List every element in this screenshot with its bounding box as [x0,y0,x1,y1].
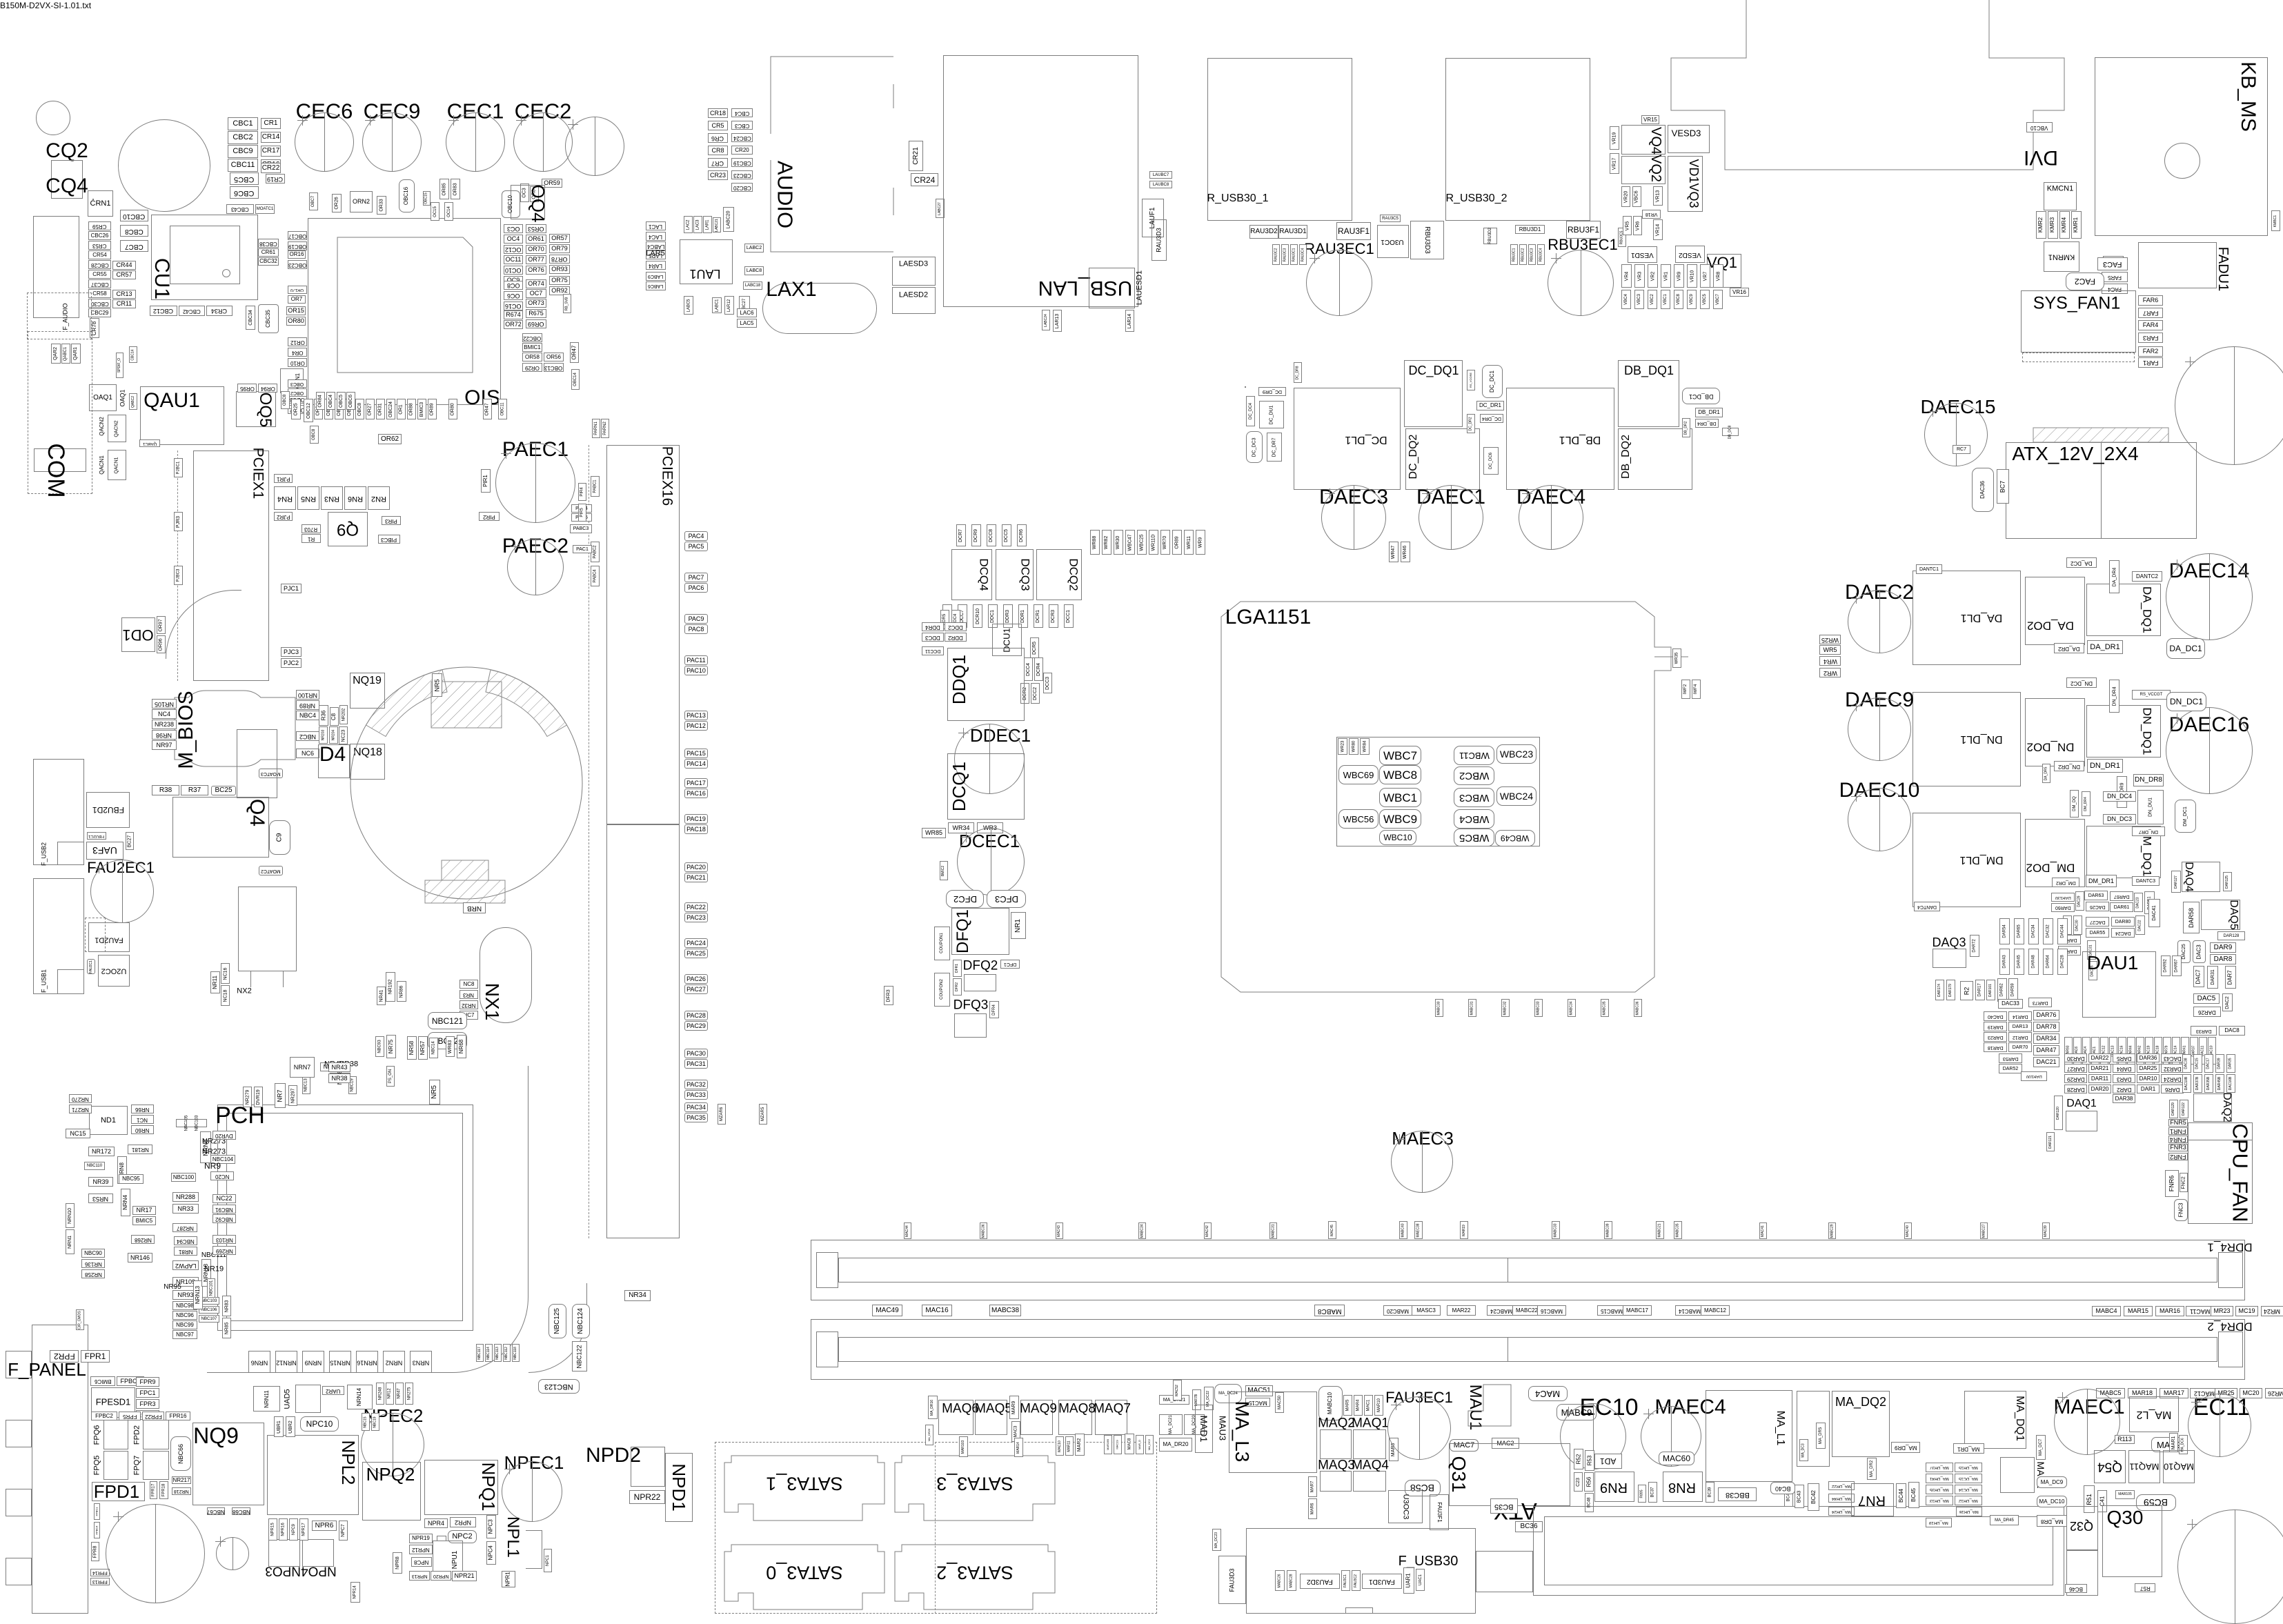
resistor NR38 [328,1073,350,1083]
resistor MA_DR16 [928,1396,938,1419]
resistor FPR22 [142,1412,164,1420]
capacitor MABC14 [1675,1305,1704,1316]
capacitor CBC11 [228,159,258,172]
capacitor WBC4 [1454,809,1494,829]
resistor DAR101 [1986,980,1995,1000]
resistor NR271 [69,1105,92,1113]
resistor DAR47 [2033,1045,2059,1056]
resistor DC_DR8 [1294,362,1302,383]
part BMIC3 [417,399,426,419]
capacitor NBC105 [176,1119,197,1127]
label NR9 [204,1162,221,1170]
resistor R38 [152,785,179,795]
resistor VR5 [1623,216,1632,235]
capacitor DAC31 [2087,940,2096,960]
resistor MAR14 [1014,1438,1023,1457]
resistor WR88 [1090,530,1100,555]
wire CPU_FAN pin row [2188,1140,2253,1140]
resistor KMR3 [2048,211,2058,239]
resistor OR16 [288,250,306,259]
resistor MAR16 [2155,1306,2184,1316]
connector connector R_USB30_1 [1207,58,1352,221]
capacitor PAC35 [684,1113,708,1122]
resistor WR11D [1149,530,1158,555]
capacitor CR23 [708,170,728,180]
resistor NR287 [172,1223,197,1232]
resistor VR14 [1653,219,1663,240]
resistor DCR5 [1030,637,1039,658]
transistor transistor MA_DQ2 [1832,1391,1890,1457]
capacitor CBC1 [228,117,258,130]
resistor network NRN8 [117,1156,127,1184]
resistor VR3 [1634,264,1645,288]
inductor NPL1 [504,1516,521,1558]
capacitor NC20 [210,1171,234,1180]
capacitor NBC66 [170,1436,191,1471]
diode DANTC3 [2132,876,2160,886]
resistor MAR6 [1308,1498,1317,1519]
capacitor MAC42 [1204,1222,1212,1239]
resistor NR93 [172,1290,199,1300]
resistor OR25 [291,399,301,419]
capacitor OBC3 [288,379,307,388]
IC IC DAU1 [2082,951,2156,1018]
part MAEC38 [1414,1221,1423,1239]
resistor NPR19 [409,1534,433,1543]
resistor DAR22 [2088,1053,2111,1062]
capacitor DDC3 [922,633,944,642]
resistor DAR92 [2161,955,2171,976]
crystal crystal NX2 cap [237,729,277,798]
resistor DAR17 [1975,980,1985,1000]
capacitor MAC51 [1245,1385,1273,1396]
resistor OR31 [376,399,385,419]
capacitor DAC1 [2091,1037,2099,1064]
resistor NR192 [386,972,395,1002]
capacitor DA_DC1 [2166,638,2205,659]
resistor DB_DR2 [1682,418,1690,437]
capacitor MA_DC3 [1799,1439,1808,1461]
capacitor RBU3C4 [1537,244,1545,265]
resistor NR269 [213,1246,236,1255]
resistor FNR5 [2168,1119,2188,1127]
resistor network RN9 [1594,1472,1634,1502]
resistor network NRN3 [410,1351,432,1373]
capacitor RAU3EC1 label [1304,241,1374,257]
resistor DA_DR1 [2087,640,2123,654]
capacitor CBC6 [230,186,259,199]
resistor WR34 [948,822,974,833]
capacitor MABC26 [1275,1570,1285,1591]
resistor NPR13 [409,1571,430,1581]
capacitor DDEC1 [954,724,1025,794]
capacitor OC10 [504,266,523,275]
capacitor FPC1 [136,1388,159,1398]
resistor OR7 [288,295,306,304]
part MOATC3 [259,769,283,778]
resistor NR53 [88,1194,113,1203]
IC MAU1 [1467,1385,1483,1431]
resistor RBU3F1 [1566,221,1601,239]
transistor DA_DO2 [2025,577,2085,645]
text LGA1151 label [1225,607,1312,628]
transistor VQ4 [1621,125,1666,155]
resistor MAR18 [2128,1388,2157,1398]
part PABC3 [570,524,592,533]
capacitor DN_DC4 [2103,791,2136,802]
capacitor small bottom-left [216,1537,249,1570]
connector SATA3_1 [724,1456,884,1521]
capacitor NBC104 [210,1155,235,1164]
resistor DAR32 [2161,1064,2184,1073]
IC M_BIOS [175,691,295,766]
resistor OR95 [237,384,257,393]
transistor DFQ2 label [963,960,998,973]
capacitor DAC4 [2082,1037,2091,1064]
resistor MAR103 [959,1436,968,1457]
resistor FPR3 [136,1399,159,1409]
capacitor MAC45 [1328,1221,1336,1239]
resistor VR10 [1687,264,1697,288]
capacitor LAC6 [737,308,757,317]
connector F_USB30 label [1399,1554,1459,1568]
capacitor OBC8 [310,426,319,444]
capacitor OBC5 [337,392,346,410]
capacitor CR19 [266,174,285,184]
capacitor MA_DC23 [1212,1529,1221,1551]
transistor MAQ3 [1320,1471,1352,1492]
resistor FAR5 [2102,272,2128,282]
resistor MAR7 [1308,1476,1317,1497]
resistor OR73 [526,299,546,308]
capacitor MABC21 [1656,1221,1664,1239]
resistor MAR7B [1192,1389,1201,1410]
transistor QAR1 [71,344,81,364]
IC DN_DU1 [2137,790,2164,824]
capacitor U3OC3 [1388,1490,1423,1523]
resistor MAR105 [2115,1490,2135,1499]
IC IC U2OC2 [98,955,130,987]
part PJBC3 [174,566,183,585]
capacitor LABC20 [723,207,734,232]
capacitor DCC11 [922,646,944,655]
transistor transistor DB_DQ1 [1618,360,1679,427]
transistor DN_DQ1 [2086,705,2161,757]
part PABC1 [591,476,600,497]
capacitor PAC1 [573,545,592,553]
resistor DAR42 [2136,1037,2144,1064]
connector connector F_AUDIO [27,293,92,339]
resistor NPR20 [431,1571,451,1581]
wire PCIEX1 keepout dashed [177,450,178,681]
capacitor CIR_CMOS [76,1309,84,1330]
capacitor cluster box inside LGA1151 [1336,737,1540,846]
capacitor CR14 [261,132,281,143]
resistor NR34 [624,1290,651,1301]
capacitor MABC31 [1269,1222,1277,1239]
resistor WR80 [1349,738,1358,755]
capacitor DFC3 [987,890,1026,908]
resistor DCR1 [1034,604,1043,628]
capacitor NC4 [152,709,177,719]
capacitor C9 [269,820,290,855]
capacitor BC41 [1784,1486,1793,1507]
capacitor MAC7 [1450,1439,1479,1452]
capacitor CBC35 [258,304,279,333]
part FAU2C1 [87,959,95,974]
resistor MA_DR20 [1159,1438,1192,1452]
capacitor CR6 [708,133,728,143]
capacitor NBC117 [476,1344,484,1362]
capacitor MABC35 [1601,999,1609,1017]
capacitor MA_DC9 [2037,1476,2067,1488]
capacitor CBC42 [179,306,205,316]
capacitor PAC30 [684,1049,708,1058]
capacitor MABC40 [1399,1221,1407,1239]
resistor MAR10 [1374,1395,1383,1416]
resistor DAR59 [2008,978,2018,1002]
resistor OR93 [549,265,570,274]
capacitor OC14 [444,202,453,221]
diode DFR4 [989,1001,999,1018]
resistor DAR4 [2113,1064,2135,1073]
resistor network NRN12 [275,1351,297,1373]
capacitor NBC118 [512,1344,520,1362]
capacitor DAC24 [2111,928,2135,938]
resistor DAR3 [2113,1074,2135,1083]
label NBC111 [201,1252,226,1259]
resistor DCR4 [1034,657,1043,681]
resistor network NRN18 [201,1259,211,1287]
wire NX2 pin2 [283,971,284,987]
capacitor LAC1 [646,221,666,230]
resistor DAR129 [2169,1100,2178,1118]
IC DC_DU1 [1259,401,1284,428]
capacitor CBC43 [226,204,254,214]
capacitor NC23 [339,726,348,744]
capacitor CR1 [261,118,281,129]
resistor DAR67 [2172,955,2182,976]
resistor MA_DR8 [2037,1515,2067,1527]
capacitor NBC114 [485,1344,493,1362]
resistor DN_DR9 [2117,776,2127,808]
resistor OR29 [522,363,542,372]
diode NPD1 [665,1453,693,1522]
capacitor DAC21 [2033,1057,2059,1067]
capacitor BC58 [1405,1480,1441,1496]
resistor MR25 [2215,1388,2237,1398]
resistor NR146 [128,1253,152,1262]
resistor network RN2 [368,486,390,510]
transistor MAQ7 [1095,1400,1127,1435]
connector LAX1 [766,279,816,300]
transistor FPD2 [143,1420,169,1449]
capacitor WBC1 [1379,788,1421,807]
transistor QAR2 [51,344,61,364]
capacitor DAC19 [2145,1037,2153,1064]
resistor network RN4 [274,486,296,510]
capacitor WBC5 [1454,829,1494,846]
capacitor LAUBC7 [1149,171,1172,179]
capacitor LAC5 [737,319,757,328]
resistor DAR79 [2163,1037,2171,1064]
capacitor LAC2 [684,216,693,233]
capacitor FAU3EC1 label [1385,1390,1453,1405]
resistor DAR7 [2225,966,2236,989]
resistor DAR26 [2193,1007,2221,1017]
transistor Q32 lower [2066,1550,2098,1596]
resistor NR7 [275,1083,286,1108]
resistor DAR35 [2226,1054,2235,1073]
resistor UAR1 [1403,1567,1414,1594]
capacitor MAC43 [1056,1222,1063,1239]
diode ND1 [89,1106,128,1135]
capacitor OC4 [504,235,523,244]
capacitor MAC39 [2042,1222,2050,1239]
transistor DFQ3 label [953,999,989,1012]
connector DDR4_1 label [2207,1242,2252,1254]
capacitor OBC5 [335,399,344,419]
capacitor BC42 [1808,1483,1819,1511]
resistor NR105 [152,699,177,709]
connector SATA3_0 [724,1545,884,1610]
resistor UBR1 [274,1416,284,1437]
resistor OR33 [377,196,386,215]
capacitor MAEC3 label [1392,1129,1454,1147]
capacitor PAC13 [684,711,708,720]
diode diode NPD2 body [631,1447,665,1487]
IC IC CU1 outline [151,215,258,300]
resistor KMR4 [2059,211,2070,239]
connector F_USB1 inner [57,969,84,994]
resistor PAR5 [571,513,592,522]
resistor NR258 [81,1269,105,1278]
resistor DAR19 [1984,1022,2007,1031]
resistor DAR9 [2210,942,2236,953]
capacitor DAC5 [2193,993,2220,1004]
transistor VD1 VQ3 [1668,156,1703,212]
connector connector F_PANEL [32,1325,88,1614]
resistor DAR24 [2161,1074,2184,1083]
resistor FPR13 [90,1578,110,1585]
connector DVI [2024,147,2058,168]
label NR19 [204,1266,224,1274]
resistor FPR8 [91,1542,99,1561]
capacitor CR17 [261,146,281,157]
resistor network RN5 [297,486,319,510]
resistor OR78 [549,255,570,264]
capacitor FAU2EC1 label [87,860,155,875]
wire wire SATA keepout dashed [715,1442,1157,1614]
resistor OR77 [526,255,546,264]
capacitor WBC3 [1454,788,1494,807]
resistor FAR4 [2138,320,2163,330]
transistor QACN1 [108,450,126,480]
fuse FUSE UAF3 [86,842,123,860]
resistor OR75 [549,276,570,285]
capacitor DCC4 [1024,657,1033,681]
resistor OR56 [544,353,564,362]
resistor MA_DR13 [1926,1496,1953,1505]
connector SATA3_0 label [766,1563,843,1582]
part MASC3 [1412,1305,1441,1316]
capacitor MAC16 [922,1305,952,1316]
diode VESD1 [1628,246,1657,263]
connector PCIEX16 slot [606,445,680,824]
resistor MA_DR22 [1828,1481,1855,1490]
resistor DA_DR5 [2042,764,2050,783]
resistor DAR30 [2064,1053,2087,1062]
capacitor bulk bottom right [2177,1509,2283,1624]
capacitor C41 [2097,1490,2107,1512]
capacitor DAC33 [1998,999,2023,1009]
capacitor DAEC2 label [1845,582,1914,603]
capacitor WBC7 [1379,746,1421,765]
resistor FNR4 [2168,1136,2188,1143]
diode diode FAU2D1 [88,922,130,952]
connector USB_LAN [1038,277,1133,298]
resistor DAR35B [2204,1074,2213,1093]
connector DDR4_1 inner body [838,1258,2217,1283]
capacitor DAEC4 label [1516,487,1585,508]
resistor network NRN1 [66,1229,75,1254]
resistor NR275 [405,1383,413,1405]
capacitor DCC2 [1031,683,1040,704]
connector SYS_FAN1 [2021,290,2136,353]
capacitor CEC6 label [296,101,353,122]
resistor VR18 [1642,210,1661,219]
resistor NPR1 [502,1571,515,1587]
capacitor MC20 [2240,1388,2262,1398]
resistor MA_DR5 [1816,1423,1826,1449]
diode DFR3 [884,986,893,1005]
capacitor CBC23 [731,170,753,179]
transistor transistor DFQ1 [951,908,1009,955]
capacitor DCC1 [1064,604,1074,628]
capacitor DAC10 [2208,1037,2216,1064]
capacitor MABC29 [1828,1222,1836,1239]
resistor NR98 [152,730,177,740]
capacitor MAC8 [1125,1434,1134,1454]
capacitor OBC11 [498,399,507,419]
resistor DAR18 [1984,1042,2007,1052]
capacitor CBC12 [150,306,177,316]
connector AUDIO [775,161,796,228]
capacitor C8 [330,707,339,726]
fuse FAU3F1 [1430,1494,1449,1530]
part IWF2 [1681,680,1690,699]
resistor NR41 [377,987,386,1005]
capacitor OBC12 [304,399,313,422]
diode NPD2 label [586,1445,641,1466]
capacitor PAC6 [684,583,708,593]
capacitor FAC2 [2066,273,2104,290]
transistor DAQ5 [2201,900,2240,930]
capacitor LABC24 [1042,310,1050,330]
inductor DB_DL1 [1506,388,1614,490]
capacitor NBC2 [296,731,319,741]
capacitor MABC16 [1537,1305,1566,1316]
resistor DAR75 [2058,946,2081,955]
capacitor WBC11 [1454,746,1494,765]
resistor DAR8 [2210,954,2236,964]
resistor DAR44 [2127,1037,2135,1064]
resistor VR19 [1610,126,1619,150]
resistor DAR23 [1984,1032,2007,1042]
resistor MAR19 [1460,1221,1468,1239]
capacitor CEC9 [362,112,422,172]
connector connector KB_MS [2095,57,2268,236]
